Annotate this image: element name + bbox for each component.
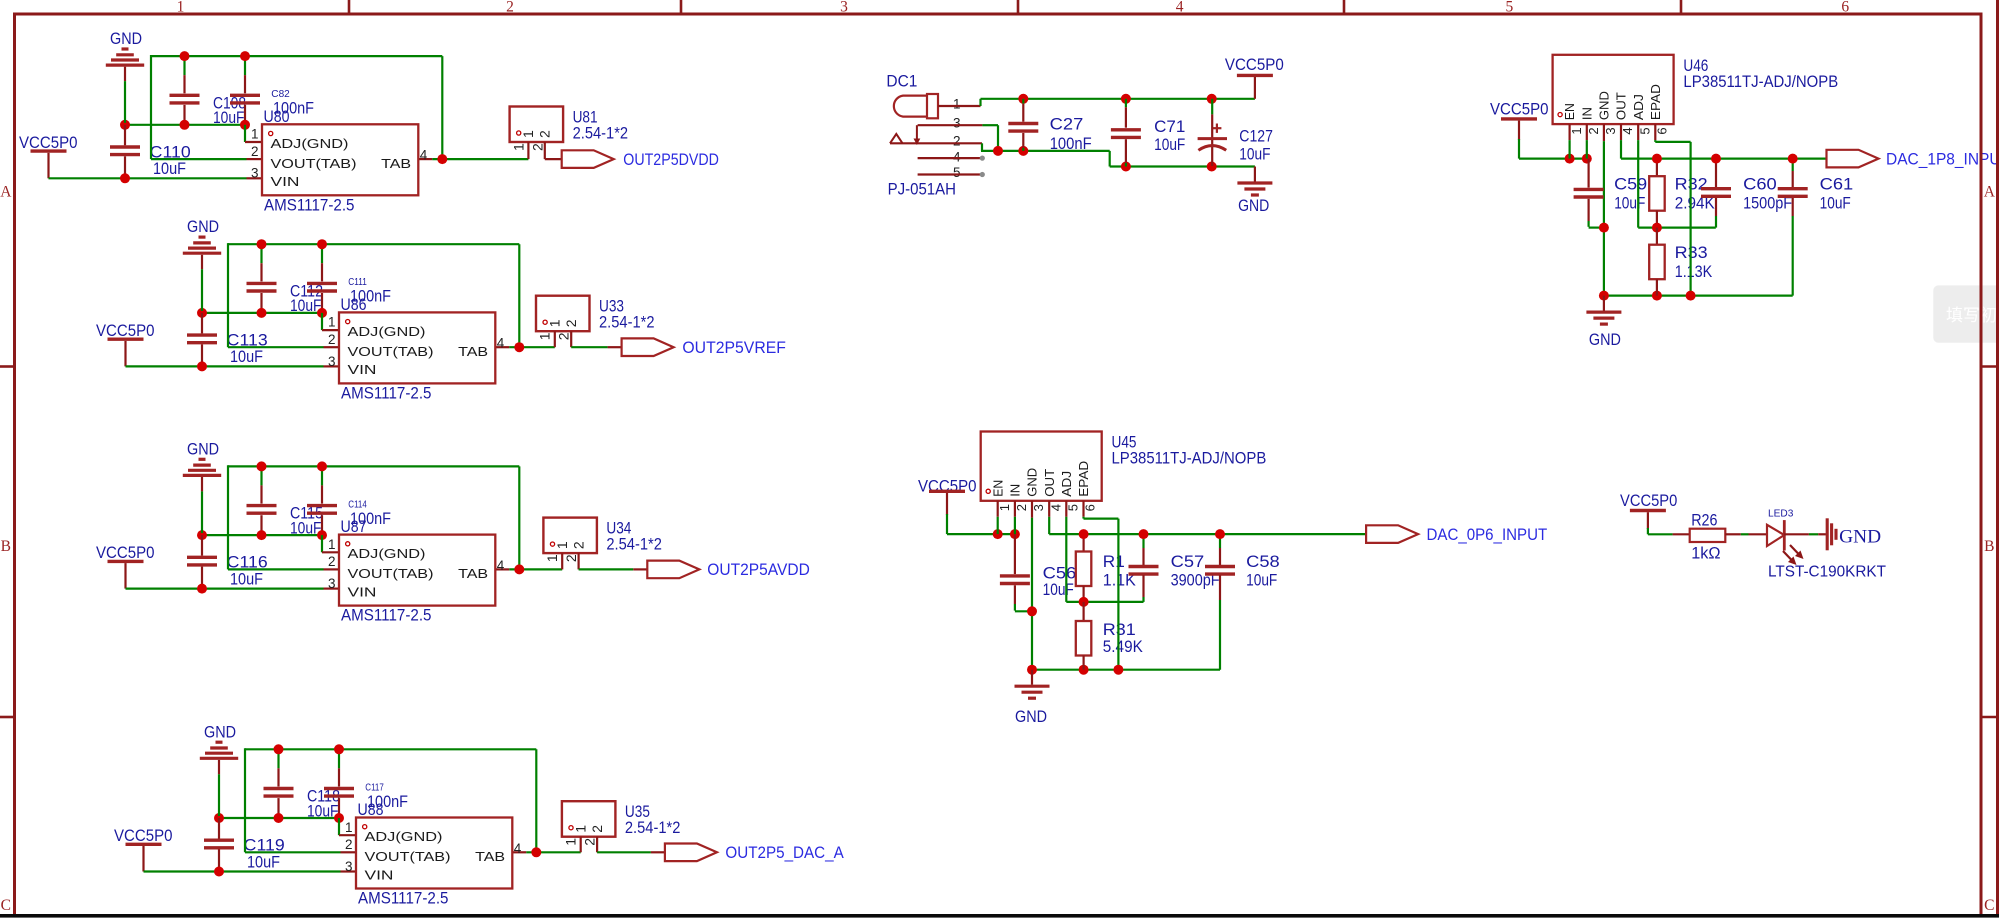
svg-text:1: 1 (520, 130, 536, 138)
svg-text:2: 2 (537, 130, 553, 138)
svg-text:ADJ: ADJ (1631, 94, 1646, 120)
svg-text:C57: C57 (1171, 552, 1205, 571)
svg-text:ADJ(GND): ADJ(GND) (271, 136, 349, 151)
svg-text:B: B (1984, 538, 1994, 555)
svg-text:2: 2 (1586, 127, 1601, 134)
svg-text:OUT: OUT (1614, 92, 1629, 120)
svg-text:2: 2 (328, 332, 336, 347)
svg-text:4: 4 (1176, 0, 1184, 16)
svg-text:2: 2 (556, 332, 572, 340)
svg-text:VIN: VIN (365, 867, 394, 882)
svg-text:2: 2 (345, 837, 353, 852)
svg-text:VCC5P0: VCC5P0 (1620, 491, 1677, 510)
svg-text:2: 2 (251, 144, 259, 159)
svg-text:C: C (1984, 897, 1994, 914)
svg-text:DAC_0P6_INPUT: DAC_0P6_INPUT (1427, 525, 1548, 544)
svg-text:5: 5 (1506, 0, 1514, 16)
svg-text:U80: U80 (264, 107, 290, 126)
svg-text:LTST-C190KRKT: LTST-C190KRKT (1768, 563, 1887, 580)
svg-text:1: 1 (510, 143, 526, 151)
svg-text:4: 4 (514, 841, 522, 856)
svg-text:4: 4 (1620, 127, 1635, 134)
svg-text:10uF: 10uF (1043, 580, 1074, 599)
svg-text:GND: GND (1238, 196, 1269, 215)
svg-text:IN: IN (1008, 484, 1023, 497)
svg-text:2: 2 (328, 554, 336, 569)
svg-text:1: 1 (345, 820, 353, 835)
svg-text:1: 1 (251, 127, 259, 142)
svg-text:4: 4 (1048, 504, 1063, 511)
svg-text:GND: GND (1589, 330, 1621, 349)
svg-text:2.54-1*2: 2.54-1*2 (573, 124, 629, 143)
svg-text:IN: IN (1579, 107, 1594, 120)
svg-text:GND: GND (1839, 527, 1881, 547)
svg-text:10uF: 10uF (1614, 194, 1645, 213)
svg-text:GND: GND (110, 29, 142, 48)
svg-text:TAB: TAB (458, 566, 488, 581)
svg-text:AMS1117-2.5: AMS1117-2.5 (341, 383, 432, 402)
svg-text:1: 1 (563, 838, 579, 846)
svg-text:VIN: VIN (348, 362, 377, 377)
svg-text:GND: GND (187, 439, 219, 458)
svg-text:2: 2 (563, 319, 579, 327)
svg-text:1: 1 (328, 315, 336, 330)
svg-text:VCC5P0: VCC5P0 (1225, 55, 1284, 74)
svg-text:C71: C71 (1154, 117, 1185, 136)
svg-text:10uF: 10uF (230, 569, 263, 588)
svg-text:VIN: VIN (271, 174, 300, 189)
svg-text:B: B (1, 538, 11, 555)
svg-text:LED3: LED3 (1768, 508, 1794, 520)
svg-text:VCC5P0: VCC5P0 (19, 133, 78, 152)
svg-text:U88: U88 (358, 800, 384, 819)
svg-text:3: 3 (345, 859, 353, 874)
svg-text:2: 2 (529, 143, 545, 151)
svg-text:VOUT(TAB): VOUT(TAB) (348, 566, 434, 581)
svg-text:DC1: DC1 (886, 72, 917, 91)
svg-text:VCC5P0: VCC5P0 (96, 321, 155, 340)
svg-text:R26: R26 (1691, 510, 1717, 529)
svg-text:GND: GND (1025, 468, 1040, 497)
svg-text:1: 1 (953, 97, 961, 112)
svg-text:VIN: VIN (348, 584, 377, 599)
svg-text:1: 1 (1569, 127, 1584, 134)
svg-text:U86: U86 (341, 295, 367, 314)
svg-text:5: 5 (1637, 127, 1652, 134)
svg-text:OUT: OUT (1042, 469, 1057, 497)
svg-text:2: 2 (570, 541, 586, 549)
svg-text:1kΩ: 1kΩ (1691, 544, 1720, 563)
svg-text:C59: C59 (1614, 175, 1647, 194)
svg-text:PJ-051AH: PJ-051AH (888, 179, 956, 198)
svg-text:3: 3 (1603, 127, 1618, 134)
svg-text:C61: C61 (1820, 175, 1854, 194)
svg-text:10uF: 10uF (1246, 571, 1277, 590)
svg-text:A: A (1984, 183, 1996, 200)
svg-text:4: 4 (497, 336, 505, 351)
svg-text:2: 2 (1014, 504, 1029, 511)
svg-text:LP38511TJ-ADJ/NOPB: LP38511TJ-ADJ/NOPB (1112, 449, 1267, 468)
svg-text:1: 1 (537, 332, 553, 340)
svg-text:GND: GND (1597, 91, 1612, 120)
svg-text:3: 3 (840, 0, 848, 16)
svg-text:OUT2P5VREF: OUT2P5VREF (682, 338, 786, 357)
svg-text:OUT2P5DVDD: OUT2P5DVDD (623, 150, 719, 169)
svg-text:EN: EN (990, 480, 1005, 497)
svg-text:1.13K: 1.13K (1675, 262, 1713, 281)
svg-text:10uF: 10uF (230, 347, 263, 366)
svg-text:6: 6 (1655, 127, 1670, 134)
svg-text:2: 2 (953, 134, 961, 149)
svg-text:C60: C60 (1743, 175, 1777, 194)
svg-text:2.54-1*2: 2.54-1*2 (625, 818, 681, 837)
svg-text:3: 3 (1031, 504, 1046, 511)
svg-text:EPAD: EPAD (1076, 461, 1091, 497)
svg-text:AMS1117-2.5: AMS1117-2.5 (358, 889, 449, 908)
svg-text:2: 2 (582, 838, 598, 846)
svg-text:6: 6 (1841, 0, 1849, 16)
svg-text:ADJ(GND): ADJ(GND) (348, 324, 426, 339)
svg-text:1: 1 (328, 537, 336, 552)
svg-text:TAB: TAB (475, 849, 505, 864)
svg-text:3: 3 (251, 166, 259, 181)
svg-text:C127: C127 (1239, 127, 1273, 146)
svg-text:C27: C27 (1050, 115, 1084, 134)
svg-text:VOUT(TAB): VOUT(TAB) (271, 156, 357, 171)
svg-text:10uF: 10uF (1820, 194, 1851, 213)
svg-text:1: 1 (997, 504, 1012, 511)
svg-text:AMS1117-2.5: AMS1117-2.5 (264, 195, 355, 214)
svg-text:ADJ: ADJ (1059, 471, 1074, 497)
svg-text:OUT2P5_DAC_A: OUT2P5_DAC_A (725, 843, 844, 862)
svg-text:填写初值: 填写初值 (1946, 306, 1999, 325)
svg-text:VOUT(TAB): VOUT(TAB) (348, 344, 434, 359)
svg-text:ADJ(GND): ADJ(GND) (365, 829, 443, 844)
svg-text:C58: C58 (1246, 552, 1280, 571)
svg-text:5.49K: 5.49K (1103, 637, 1144, 656)
svg-text:VCC5P0: VCC5P0 (114, 826, 173, 845)
svg-text:C: C (1, 897, 11, 914)
svg-text:5: 5 (1066, 504, 1081, 511)
svg-text:GND: GND (1015, 707, 1047, 726)
svg-text:3: 3 (953, 116, 961, 131)
svg-text:10uF: 10uF (247, 852, 280, 871)
svg-text:R1: R1 (1103, 552, 1125, 571)
svg-text:2.54-1*2: 2.54-1*2 (606, 535, 662, 554)
svg-text:EPAD: EPAD (1648, 84, 1663, 120)
svg-text:5: 5 (953, 165, 961, 180)
svg-text:AMS1117-2.5: AMS1117-2.5 (341, 606, 432, 625)
svg-text:OUT2P5AVDD: OUT2P5AVDD (707, 560, 810, 579)
svg-text:GND: GND (187, 217, 219, 236)
svg-text:2: 2 (506, 0, 514, 16)
svg-text:LP38511TJ-ADJ/NOPB: LP38511TJ-ADJ/NOPB (1683, 72, 1838, 91)
svg-text:1: 1 (554, 541, 570, 549)
svg-text:VCC5P0: VCC5P0 (96, 543, 155, 562)
svg-text:EN: EN (1562, 103, 1577, 120)
svg-text:4: 4 (497, 558, 505, 573)
svg-text:4: 4 (420, 148, 428, 163)
svg-text:U87: U87 (341, 517, 367, 536)
svg-text:TAB: TAB (458, 344, 488, 359)
svg-text:VOUT(TAB): VOUT(TAB) (365, 849, 451, 864)
svg-text:10uF: 10uF (153, 159, 186, 178)
svg-text:2: 2 (589, 825, 605, 833)
svg-text:A: A (0, 183, 12, 200)
svg-text:2: 2 (563, 554, 579, 562)
svg-text:3: 3 (328, 354, 336, 369)
svg-text:VCC5P0: VCC5P0 (1490, 100, 1549, 119)
svg-text:TAB: TAB (381, 156, 411, 171)
svg-text:1: 1 (547, 319, 563, 327)
svg-text:1: 1 (177, 0, 185, 16)
svg-text:1: 1 (544, 554, 560, 562)
svg-text:2.54-1*2: 2.54-1*2 (599, 313, 655, 332)
svg-text:GND: GND (204, 722, 236, 741)
svg-text:10uF: 10uF (1239, 145, 1270, 164)
svg-text:ADJ(GND): ADJ(GND) (348, 546, 426, 561)
svg-text:1: 1 (572, 825, 588, 833)
svg-text:6: 6 (1083, 504, 1098, 511)
svg-text:3: 3 (328, 576, 336, 591)
svg-text:10uF: 10uF (1154, 135, 1185, 154)
